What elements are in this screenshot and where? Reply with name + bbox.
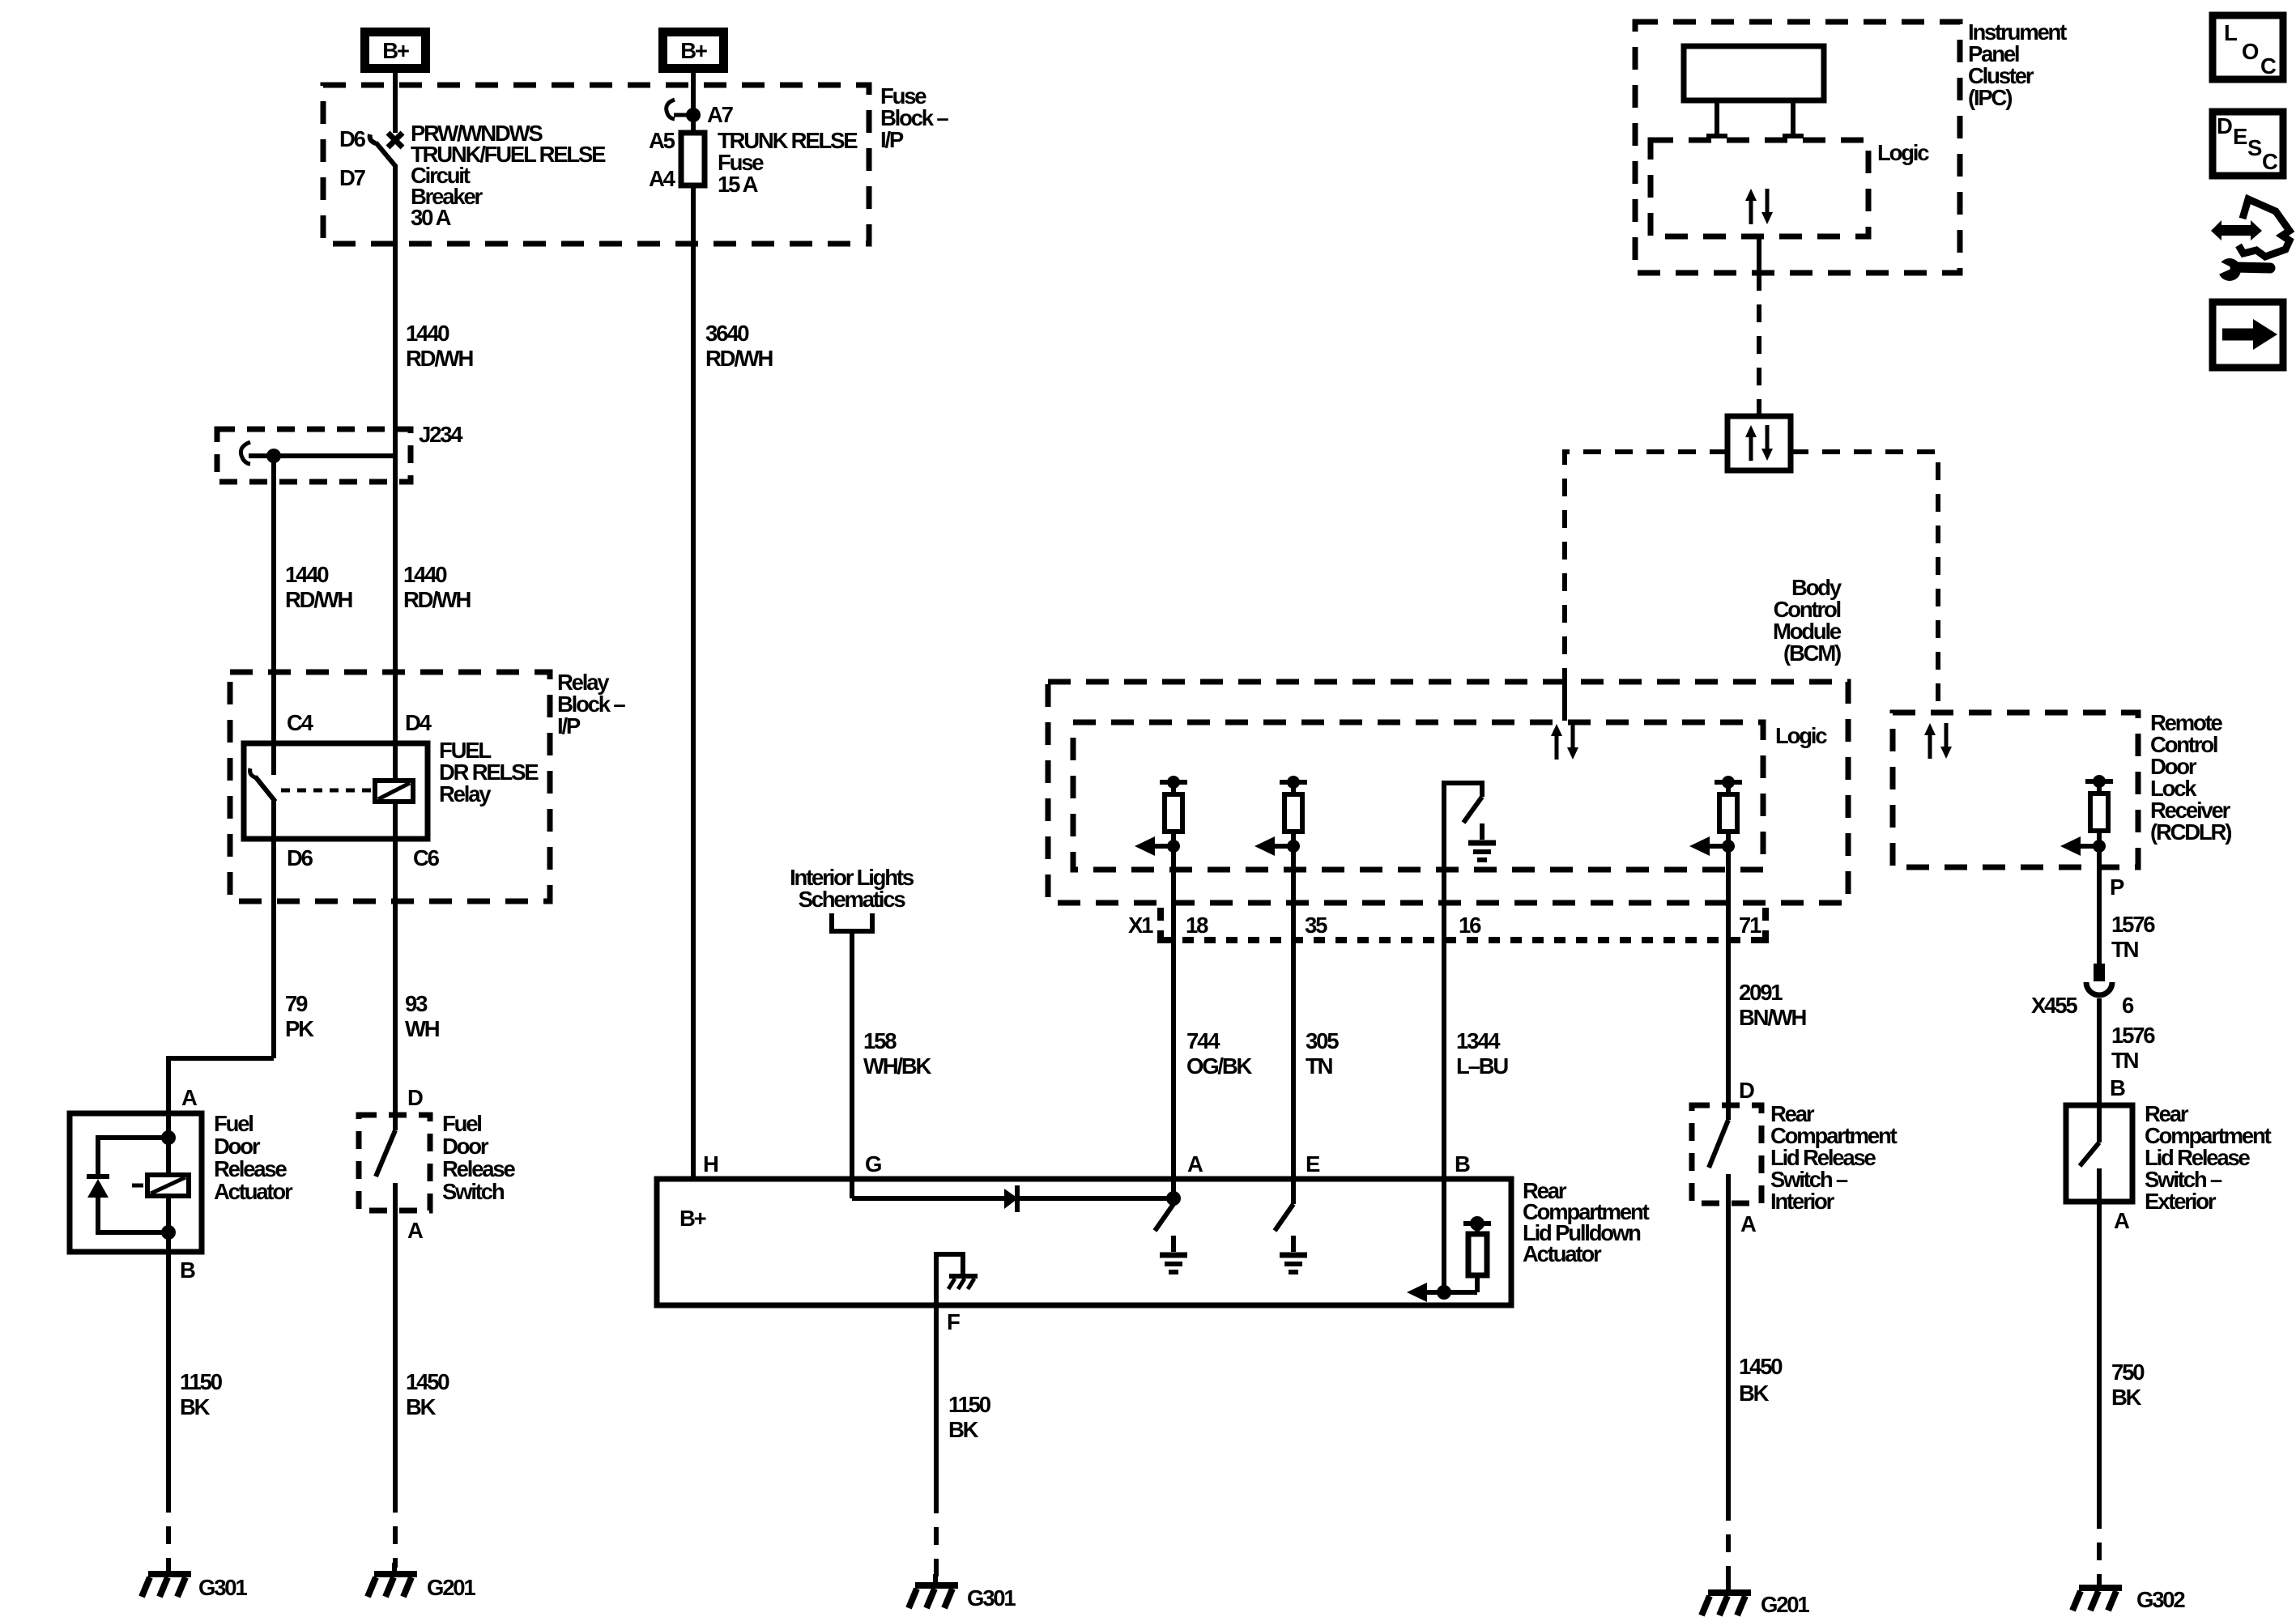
actuator internal wire and nodes xyxy=(98,1113,176,1240)
svg-text:G201: G201 xyxy=(1761,1592,1809,1617)
svg-text:A: A xyxy=(2114,1208,2130,1233)
label fuse xyxy=(718,128,858,197)
svg-text:79: 79 xyxy=(285,991,308,1016)
svg-text:(IPC): (IPC) xyxy=(1968,85,2012,110)
svg-text:RD/WH: RD/WH xyxy=(285,587,352,612)
svg-text:BK: BK xyxy=(2111,1385,2142,1410)
svg-text:D: D xyxy=(1739,1078,1754,1103)
wire actuator B down xyxy=(166,1252,171,1495)
label FUEL DR RELSE Relay xyxy=(439,738,539,806)
svg-text:C: C xyxy=(2262,149,2278,174)
internal switch E to ground xyxy=(1275,1179,1293,1231)
X1 connector strip dotted line xyxy=(1161,937,1762,943)
label 158 WH/BK xyxy=(863,1028,932,1079)
svg-text:Fuel: Fuel xyxy=(442,1111,481,1136)
svg-text:TN: TN xyxy=(2111,1048,2138,1073)
svg-text:1576: 1576 xyxy=(2111,1023,2155,1048)
IPC serial data arrows xyxy=(1745,189,1773,224)
label 93 WH xyxy=(405,991,439,1041)
svg-text:15 A: 15 A xyxy=(718,172,759,197)
node J234 junction xyxy=(266,449,281,463)
switch contact xyxy=(376,1115,395,1211)
ground G201 xyxy=(368,1563,417,1597)
arrow pin 18 xyxy=(1135,836,1174,856)
svg-text:Switch: Switch xyxy=(442,1179,505,1204)
J234 splice dashed box xyxy=(217,429,411,482)
forward arrow icon box xyxy=(2213,302,2283,368)
label switch interior xyxy=(1770,1101,1898,1214)
label Relay Block - I/P xyxy=(557,670,625,738)
svg-text:BK: BK xyxy=(1739,1381,1770,1406)
svg-text:I/P: I/P xyxy=(557,713,581,738)
svg-text:WH: WH xyxy=(405,1016,439,1041)
svg-text:TN: TN xyxy=(1306,1053,1332,1079)
svg-text:1440: 1440 xyxy=(403,562,447,587)
label 1440 RD/WH upper xyxy=(406,321,473,371)
interior switch contact xyxy=(1709,1105,1728,1203)
BCM serial data arrows xyxy=(1551,724,1578,760)
dashed serial bus right xyxy=(1791,452,1938,713)
svg-text:G201: G201 xyxy=(427,1575,475,1600)
svg-text:(BCM): (BCM) xyxy=(1783,640,1841,666)
wire 2091 pin 71 to interior switch xyxy=(1726,846,1731,1105)
svg-text:C: C xyxy=(2260,53,2277,79)
wire relay C6 down to switch D xyxy=(393,839,398,1115)
splice clip A7 xyxy=(667,100,701,122)
svg-text:16: 16 xyxy=(1459,913,1481,938)
label Remote Control Door Lock Receiver (RCDLR) xyxy=(2150,710,2231,845)
svg-text:D6: D6 xyxy=(339,126,366,151)
svg-text:305: 305 xyxy=(1306,1028,1339,1053)
exterior switch contact xyxy=(2080,1105,2099,1202)
relay coil xyxy=(375,743,413,839)
label 305 TN xyxy=(1306,1028,1339,1079)
svg-text:RD/WH: RD/WH xyxy=(403,587,471,612)
svg-text:H: H xyxy=(703,1151,718,1177)
svg-text:B: B xyxy=(2110,1075,2125,1100)
svg-text:TN: TN xyxy=(2111,937,2138,962)
svg-text:B+: B+ xyxy=(382,38,409,63)
wire X455 to exterior switch xyxy=(2097,998,2102,1105)
DESC icon box xyxy=(2213,112,2283,176)
switch to ground pin 16 xyxy=(1444,783,1482,1179)
wire 744 pin 18 to actuator A xyxy=(1171,846,1176,1179)
rear compartment lid release switch interior dashed box xyxy=(1692,1105,1761,1203)
IPC legs xyxy=(1706,100,1804,136)
svg-text:PK: PK xyxy=(285,1016,314,1041)
label circuit breaker xyxy=(411,121,606,230)
solenoid coil xyxy=(132,1175,189,1252)
RCDLR resistor xyxy=(2085,775,2113,853)
svg-text:C4: C4 xyxy=(287,710,314,735)
wire serial into BCM xyxy=(1562,682,1567,721)
svg-text:X1: X1 xyxy=(1128,913,1153,938)
wire switch A down xyxy=(393,1211,398,1495)
label 1576 TN upper xyxy=(2111,912,2155,962)
wire dashed to G301 xyxy=(166,1495,171,1568)
svg-text:Interior: Interior xyxy=(1770,1189,1835,1214)
svg-text:OG/BK: OG/BK xyxy=(1186,1053,1252,1079)
svg-text:E: E xyxy=(1306,1151,1320,1177)
arrow at pin B junction xyxy=(1407,1283,1446,1302)
svg-text:X455: X455 xyxy=(2031,993,2077,1018)
internal switch A to ground xyxy=(1155,1179,1174,1231)
earth ground A xyxy=(1160,1236,1187,1272)
svg-text:G: G xyxy=(865,1151,881,1177)
X1 tick right xyxy=(1762,908,1769,946)
dashed serial bus left xyxy=(1565,452,1727,682)
svg-text:C6: C6 xyxy=(413,845,440,870)
svg-text:B: B xyxy=(1455,1151,1470,1177)
arrow pin 35 xyxy=(1254,836,1293,856)
wire IPC logic down xyxy=(1757,236,1761,273)
svg-text:BK: BK xyxy=(406,1394,437,1419)
X1 tick left xyxy=(1157,908,1164,946)
svg-text:I/P: I/P xyxy=(880,127,904,152)
svg-text:BN/WH: BN/WH xyxy=(1739,1005,1806,1030)
svg-text:1150: 1150 xyxy=(180,1369,223,1394)
wire B+ to circuit breaker xyxy=(393,73,398,133)
svg-text:1440: 1440 xyxy=(406,321,449,346)
wire breaker down to J234 xyxy=(393,165,398,456)
wire B+ to fuse xyxy=(691,73,696,133)
label 750 BK xyxy=(2111,1360,2145,1410)
splice clip J234 xyxy=(241,442,250,464)
label 79 PK xyxy=(285,991,314,1041)
svg-text:158: 158 xyxy=(863,1028,897,1053)
resistor pin 35 xyxy=(1280,776,1307,853)
rear compartment lid pulldown actuator box xyxy=(657,1179,1511,1305)
body control module BCM dashed box xyxy=(1048,682,1848,903)
svg-text:1344: 1344 xyxy=(1456,1028,1501,1053)
svg-text:750: 750 xyxy=(2111,1360,2145,1385)
svg-text:93: 93 xyxy=(405,991,428,1016)
label Fuse Block - I/P xyxy=(880,83,948,152)
IPC logic dashed box xyxy=(1651,140,1868,236)
LOC icon box xyxy=(2213,15,2283,79)
svg-text:D6: D6 xyxy=(287,845,313,870)
relay contact switch xyxy=(250,743,275,839)
svg-text:Actuator: Actuator xyxy=(214,1179,293,1204)
svg-text:1450: 1450 xyxy=(406,1369,449,1394)
svg-text:Exterior: Exterior xyxy=(2145,1189,2217,1214)
wire relay D6 down xyxy=(271,839,276,1058)
svg-text:WH/BK: WH/BK xyxy=(863,1053,932,1079)
arrow pin 71 xyxy=(1689,836,1728,856)
svg-text:G302: G302 xyxy=(2136,1587,2185,1612)
resistor pin 71 xyxy=(1715,776,1742,853)
svg-text:L: L xyxy=(2224,20,2237,45)
ground G201 right xyxy=(1702,1581,1751,1615)
wire exterior switch down xyxy=(2097,1202,2102,1511)
svg-text:D: D xyxy=(2217,113,2232,138)
splice wire J234 xyxy=(249,453,395,458)
svg-text:71: 71 xyxy=(1739,913,1761,938)
wire J234 main down to relay D4 xyxy=(393,456,398,743)
off-page bracket xyxy=(832,913,872,931)
wrench icon xyxy=(2217,258,2270,281)
relay FUEL DR RELSE box xyxy=(244,743,428,839)
earth ground pin 16 xyxy=(1468,823,1496,860)
fuse TRUNK RELSE 15A xyxy=(681,133,705,185)
BCM logic dashed box xyxy=(1073,722,1763,870)
label Fuel Door Release Actuator xyxy=(214,1111,293,1204)
B+ power symbol (right) xyxy=(663,32,724,69)
ground G302 xyxy=(2072,1577,2122,1611)
svg-text:G301: G301 xyxy=(198,1575,247,1600)
wire dashed to G201 right xyxy=(1726,1503,1731,1586)
svg-text:30 A: 30 A xyxy=(411,205,452,230)
IPC display rectangle xyxy=(1684,46,1824,100)
svg-text:1150: 1150 xyxy=(948,1392,991,1417)
svg-text:3640: 3640 xyxy=(705,321,749,346)
svg-text:Schematics: Schematics xyxy=(799,887,906,912)
internal chassis ground F xyxy=(936,1254,978,1305)
inline connector X455 xyxy=(2086,964,2112,995)
svg-text:Door: Door xyxy=(442,1134,489,1159)
arrow RCDLR xyxy=(2060,836,2099,856)
label 1440 RD/WH right xyxy=(403,562,471,612)
svg-text:L–BU: L–BU xyxy=(1456,1053,1508,1079)
label 1150 BK middle xyxy=(948,1392,991,1442)
RCDLR serial arrows xyxy=(1924,723,1952,759)
label switch exterior xyxy=(2145,1101,2272,1214)
svg-text:D: D xyxy=(407,1085,423,1110)
wire 305 pin 35 to actuator E xyxy=(1291,846,1296,1179)
svg-text:Logic: Logic xyxy=(1877,140,1929,165)
svg-text:Release: Release xyxy=(442,1156,515,1181)
instrument panel cluster IPC dashed box xyxy=(1635,22,1960,273)
wire dashed to G201 xyxy=(393,1495,398,1568)
svg-text:A: A xyxy=(181,1085,198,1110)
fuse block I/P dashed box xyxy=(323,85,869,244)
svg-text:A: A xyxy=(1187,1151,1203,1177)
svg-text:A5: A5 xyxy=(649,128,675,153)
label 1576 TN lower xyxy=(2111,1023,2155,1073)
label Fuel Door Release Switch xyxy=(442,1111,515,1204)
svg-text:B+: B+ xyxy=(679,1206,706,1231)
earth ground E xyxy=(1280,1236,1307,1272)
relay block I/P dashed box xyxy=(230,672,550,901)
svg-text:B+: B+ xyxy=(680,38,707,63)
svg-text:Logic: Logic xyxy=(1775,723,1827,748)
label Instrument Panel Cluster (IPC) xyxy=(1968,19,2067,110)
wire 158 to actuator pin G xyxy=(850,931,854,1179)
ground G301 middle xyxy=(909,1574,958,1608)
svg-text:BK: BK xyxy=(948,1417,979,1442)
fuel door release actuator box xyxy=(70,1113,202,1252)
svg-text:RD/WH: RD/WH xyxy=(406,346,473,371)
svg-text:6: 6 xyxy=(2122,993,2134,1018)
svg-text:D4: D4 xyxy=(405,710,432,735)
wire J234 branch down to relay C4 xyxy=(271,456,276,743)
svg-text:Fuel: Fuel xyxy=(214,1111,253,1136)
wire dashed to G302 xyxy=(2097,1511,2102,1581)
label 1344 L-BU xyxy=(1456,1028,1508,1079)
svg-text:E: E xyxy=(2233,124,2247,149)
svg-text:(RCDLR): (RCDLR) xyxy=(2150,819,2231,845)
wire RCDLR pin P down xyxy=(2097,846,2102,964)
svg-text:G301: G301 xyxy=(967,1585,1016,1611)
svg-text:J234: J234 xyxy=(419,422,463,447)
wire F down xyxy=(934,1305,939,1496)
resistor pin 18 xyxy=(1160,776,1187,853)
dashed serial wire IPC down xyxy=(1757,273,1761,416)
svg-text:1440: 1440 xyxy=(285,562,329,587)
label 744 OG/BK xyxy=(1186,1028,1252,1079)
svg-text:RD/WH: RD/WH xyxy=(705,346,773,371)
svg-text:BK: BK xyxy=(180,1394,211,1419)
label 1450 BK xyxy=(406,1369,449,1419)
serial box arrows xyxy=(1745,425,1773,461)
fuel door release switch dashed box xyxy=(359,1115,430,1211)
svg-text:O: O xyxy=(2242,39,2259,64)
svg-text:Release: Release xyxy=(214,1156,287,1181)
label Rear Compartment Lid Pulldown Actuator xyxy=(1523,1178,1650,1266)
B+ power symbol (left) xyxy=(365,32,426,69)
svg-text:S: S xyxy=(2247,135,2262,160)
wire dashed to G301 middle xyxy=(934,1496,939,1579)
svg-text:744: 744 xyxy=(1186,1028,1220,1053)
svg-text:Door: Door xyxy=(214,1134,261,1159)
diagnostic car icon xyxy=(2211,199,2290,257)
svg-text:2091: 2091 xyxy=(1739,980,1783,1005)
svg-text:B: B xyxy=(180,1257,195,1283)
svg-text:18: 18 xyxy=(1186,913,1208,938)
svg-text:1576: 1576 xyxy=(2111,912,2155,937)
wire interior switch down xyxy=(1726,1203,1731,1503)
svg-text:P: P xyxy=(2110,874,2124,900)
svg-text:A4: A4 xyxy=(649,166,676,191)
remote control door lock receiver RCDLR dashed box xyxy=(1893,713,2138,867)
diode clamp xyxy=(87,1177,109,1198)
svg-text:1450: 1450 xyxy=(1739,1354,1783,1379)
internal wire G with diode to A xyxy=(852,1179,1181,1212)
svg-text:D7: D7 xyxy=(339,165,366,190)
label 1450 BK right xyxy=(1739,1354,1783,1406)
ground G301 xyxy=(142,1563,191,1597)
label 2091 BN/WH xyxy=(1739,980,1806,1030)
svg-text:A7: A7 xyxy=(707,102,734,127)
serial data connector box xyxy=(1727,416,1791,470)
internal resistor B with arrow xyxy=(1437,1179,1491,1300)
svg-text:35: 35 xyxy=(1305,913,1327,938)
svg-text:Relay: Relay xyxy=(439,781,492,806)
label 3640 RD/WH xyxy=(705,321,773,371)
label Interior Lights Schematics xyxy=(790,865,914,912)
rear compartment lid release switch exterior box xyxy=(2066,1105,2132,1202)
label Body Control Module (BCM) xyxy=(1773,575,1842,666)
svg-text:F: F xyxy=(947,1309,960,1334)
circuit breaker PRW/WNDWS TRUNK/FUEL RELSE 30A xyxy=(370,133,403,167)
svg-text:Actuator: Actuator xyxy=(1523,1241,1602,1266)
wire 3640 fuse down to actuator pin H xyxy=(691,185,696,1179)
label 1440 RD/WH left xyxy=(285,562,352,612)
relay link dashed xyxy=(281,789,373,793)
label 1150 BK xyxy=(180,1369,223,1419)
svg-text:A: A xyxy=(407,1218,424,1243)
wire bend to actuator pin A xyxy=(168,1058,274,1113)
svg-text:A: A xyxy=(1740,1211,1757,1236)
